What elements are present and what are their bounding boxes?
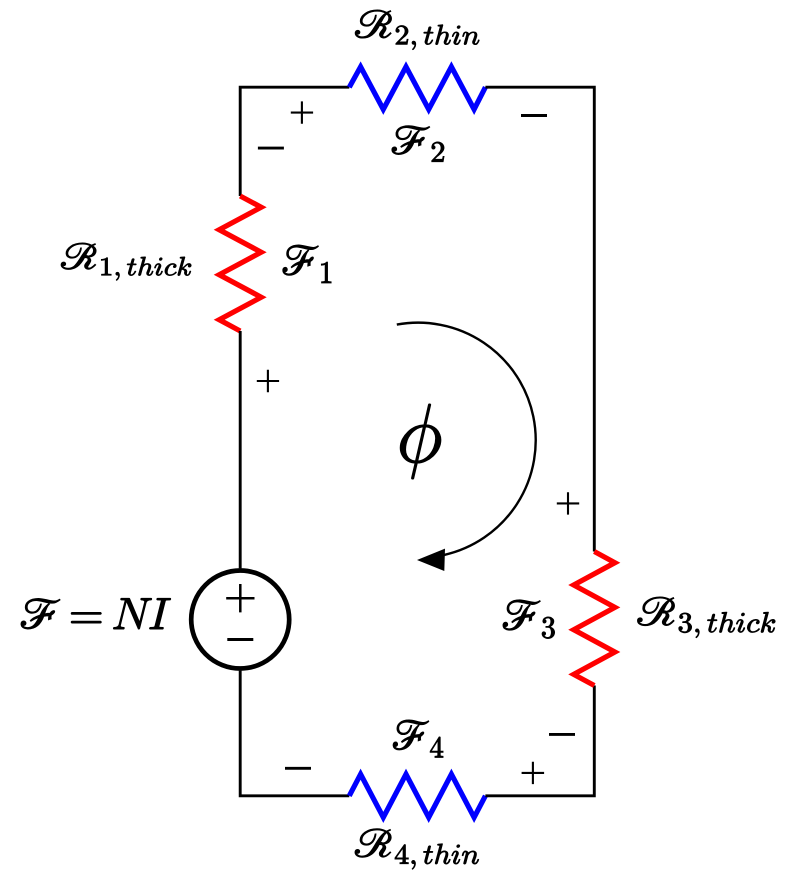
label R1,thick	[61, 243, 191, 280]
label F1 (mmf drop across R1)	[283, 245, 331, 283]
wire top-left (left rail upper + top rail left)	[240, 87, 349, 196]
label F = NI	[21, 598, 171, 629]
polarity - below R3	[549, 733, 575, 736]
source + sign	[226, 584, 254, 612]
wire bottom-right corner (bottom rail right + right rail lower)	[485, 686, 594, 796]
MMF source circle F=NI	[191, 571, 289, 669]
label F4 (mmf drop across R4)	[393, 720, 443, 757]
resistor R2,thin (blue zigzag, top)	[349, 67, 485, 110]
label R2,thin	[355, 10, 479, 50]
polarity - right of R2	[521, 114, 547, 117]
label R4,thin	[355, 829, 479, 870]
flux arc arrowhead	[417, 549, 445, 571]
resistor R3,thick (red zigzag, right)	[574, 552, 615, 686]
polarity + right of R4	[522, 762, 545, 784]
resistor R1,thick (red zigzag, left)	[219, 196, 261, 331]
resistor R4,thin (blue zigzag, bottom)	[349, 774, 485, 817]
polarity + below R1	[257, 370, 279, 392]
polarity - top of R1	[258, 147, 284, 150]
polarity - left of R4	[285, 767, 311, 770]
polarity + left of R2	[291, 101, 313, 123]
source - sign	[227, 638, 253, 641]
wire left-mid (R1 bottom to source top)	[239, 331, 242, 568]
label F3 (mmf drop across R3)	[503, 600, 555, 639]
wire bottom-left corner (left rail lower + bottom rail left)	[240, 671, 349, 796]
label F2 (mmf drop across R2)	[392, 126, 444, 162]
flux direction arc (clockwise)	[397, 323, 536, 555]
flux label phi	[400, 404, 441, 479]
polarity + above R3	[557, 492, 579, 514]
wire top-right corner (top rail right + right rail upper)	[485, 87, 594, 551]
label R3,thick	[638, 597, 776, 638]
